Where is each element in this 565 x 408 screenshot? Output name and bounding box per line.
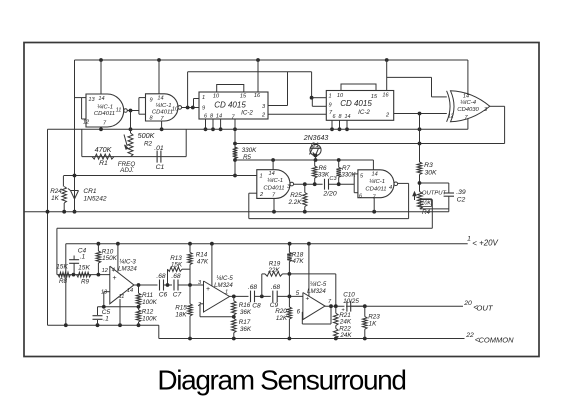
svg-text:24K: 24K: [339, 332, 352, 339]
svg-text:R12: R12: [142, 309, 154, 316]
svg-text:COMMON: COMMON: [479, 335, 515, 344]
svg-text:R20: R20: [275, 308, 287, 315]
svg-text:¼IC-1: ¼IC-1: [267, 178, 283, 184]
svg-text:12: 12: [83, 120, 90, 126]
svg-text:CD4011: CD4011: [152, 110, 173, 116]
svg-text:22: 22: [465, 332, 474, 339]
svg-text:R24: R24: [50, 188, 62, 195]
svg-text:4: 4: [389, 185, 392, 191]
svg-text:CD4011: CD4011: [263, 186, 284, 192]
svg-text:15: 15: [371, 94, 378, 100]
svg-text:C8: C8: [252, 303, 261, 310]
svg-text:10/25: 10/25: [343, 298, 359, 305]
svg-text:16: 16: [254, 93, 261, 99]
svg-text:+: +: [306, 296, 310, 303]
svg-text:C6: C6: [159, 292, 168, 299]
svg-text:36K: 36K: [240, 309, 252, 316]
svg-text:10: 10: [213, 94, 220, 100]
svg-text:.01: .01: [154, 145, 164, 152]
svg-text:C7: C7: [173, 292, 182, 299]
svg-text:OUTPUT: OUTPUT: [422, 191, 447, 197]
svg-text:18K: 18K: [175, 312, 187, 319]
svg-text:15: 15: [240, 94, 247, 100]
svg-text:LM324: LM324: [214, 282, 233, 289]
svg-text:R3: R3: [424, 162, 433, 169]
svg-text:R16: R16: [239, 302, 251, 309]
svg-text:+: +: [206, 286, 210, 293]
svg-text:R14: R14: [196, 252, 208, 259]
svg-text:100K: 100K: [142, 316, 158, 323]
svg-text:9: 9: [149, 98, 152, 104]
svg-text:.1: .1: [103, 316, 109, 323]
svg-text:1: 1: [467, 236, 471, 243]
svg-text:CD4011: CD4011: [94, 111, 115, 117]
svg-text:11: 11: [119, 294, 125, 300]
svg-text:150K: 150K: [102, 255, 118, 262]
svg-text:C2: C2: [457, 197, 466, 204]
svg-text:LM324: LM324: [118, 265, 137, 272]
svg-text:LM324: LM324: [307, 288, 326, 295]
svg-text:IC-2: IC-2: [358, 109, 370, 116]
svg-text:<: <: [472, 239, 477, 248]
svg-text:¼IC-5: ¼IC-5: [216, 275, 233, 282]
svg-text:10K: 10K: [421, 201, 431, 207]
svg-text:CR1: CR1: [83, 188, 97, 195]
svg-text:20: 20: [463, 300, 472, 307]
svg-text:¼IC-5: ¼IC-5: [310, 281, 327, 288]
svg-text:9: 9: [202, 106, 205, 112]
svg-text:1: 1: [225, 290, 228, 296]
svg-text:1K: 1K: [51, 195, 60, 202]
svg-text:4: 4: [112, 268, 115, 274]
svg-text:47K: 47K: [292, 258, 304, 265]
svg-text:22K: 22K: [267, 267, 280, 274]
svg-text:6: 6: [333, 114, 336, 120]
svg-text:470K: 470K: [95, 145, 113, 154]
svg-text:R25: R25: [290, 192, 302, 199]
svg-text:.68: .68: [271, 284, 280, 291]
svg-text:¼IC-4: ¼IC-4: [460, 100, 477, 106]
svg-text:10: 10: [172, 107, 179, 113]
svg-text:16: 16: [382, 93, 389, 99]
svg-text:.68: .68: [248, 284, 257, 291]
svg-text:.68: .68: [171, 273, 180, 280]
svg-text:.39: .39: [456, 189, 466, 196]
svg-text:¼IC-1: ¼IC-1: [155, 103, 171, 109]
svg-text:15K: 15K: [171, 262, 183, 269]
svg-text:¼IC-1: ¼IC-1: [369, 179, 385, 185]
svg-text:14: 14: [345, 114, 351, 120]
svg-text:1N5242: 1N5242: [83, 196, 106, 203]
svg-text:13: 13: [101, 290, 108, 296]
svg-text:R2: R2: [144, 141, 153, 148]
svg-text:100K: 100K: [142, 299, 158, 306]
svg-text:R1: R1: [99, 160, 108, 167]
svg-text:33K: 33K: [318, 172, 330, 179]
svg-text:14: 14: [216, 114, 222, 120]
svg-text:R17: R17: [239, 319, 251, 326]
svg-text:8: 8: [339, 114, 342, 120]
svg-text:CD 4015: CD 4015: [214, 101, 246, 110]
svg-text:14: 14: [127, 288, 133, 294]
svg-text:2N3643: 2N3643: [303, 135, 329, 142]
svg-text:1: 1: [328, 94, 331, 100]
svg-text:24K: 24K: [339, 319, 352, 326]
svg-text:CD4011: CD4011: [365, 187, 386, 193]
svg-text:R4: R4: [422, 209, 431, 216]
svg-text:R23: R23: [368, 314, 380, 321]
svg-text:2.2K: 2.2K: [288, 199, 303, 206]
svg-text:R8: R8: [59, 278, 68, 285]
svg-text:ADJ.: ADJ.: [119, 167, 134, 174]
svg-text:9: 9: [328, 103, 331, 109]
svg-text:15K: 15K: [78, 265, 90, 272]
svg-text:R11: R11: [142, 292, 153, 299]
svg-text:C3: C3: [329, 176, 337, 182]
svg-text:14: 14: [268, 171, 274, 177]
svg-text:Diagram Sensurround: Diagram Sensurround: [157, 365, 405, 396]
svg-text:1: 1: [202, 95, 205, 101]
svg-text:11: 11: [116, 108, 122, 114]
svg-text:30K: 30K: [424, 170, 437, 177]
svg-text:.68: .68: [156, 273, 165, 280]
svg-text:12: 12: [102, 268, 109, 274]
svg-text:14: 14: [463, 94, 469, 100]
svg-text:12: 12: [448, 114, 454, 120]
svg-text:1K: 1K: [369, 321, 378, 328]
svg-text:R9: R9: [81, 279, 90, 286]
svg-text:15K: 15K: [56, 264, 68, 271]
svg-text:12K: 12K: [276, 315, 288, 322]
svg-text:OUT: OUT: [476, 304, 494, 313]
svg-text:14: 14: [371, 172, 377, 178]
svg-text:CD4030: CD4030: [457, 107, 479, 113]
svg-text:.1: .1: [80, 254, 85, 261]
svg-text:500K: 500K: [138, 131, 156, 140]
svg-text:2/20: 2/20: [322, 191, 336, 198]
svg-text:13: 13: [88, 97, 95, 103]
svg-text:+20V: +20V: [479, 238, 498, 247]
svg-text:IC-2: IC-2: [241, 110, 253, 117]
svg-text:CD 4015: CD 4015: [340, 99, 372, 108]
svg-text:47K: 47K: [197, 259, 209, 266]
svg-text:¼IC-1: ¼IC-1: [97, 105, 113, 111]
svg-text:36K: 36K: [240, 326, 252, 333]
svg-text:1: 1: [259, 174, 262, 180]
svg-text:C1: C1: [156, 164, 165, 171]
svg-text:14: 14: [157, 96, 163, 102]
svg-text:14: 14: [98, 96, 104, 102]
svg-text:+: +: [113, 275, 117, 282]
svg-text:R15: R15: [175, 305, 187, 312]
